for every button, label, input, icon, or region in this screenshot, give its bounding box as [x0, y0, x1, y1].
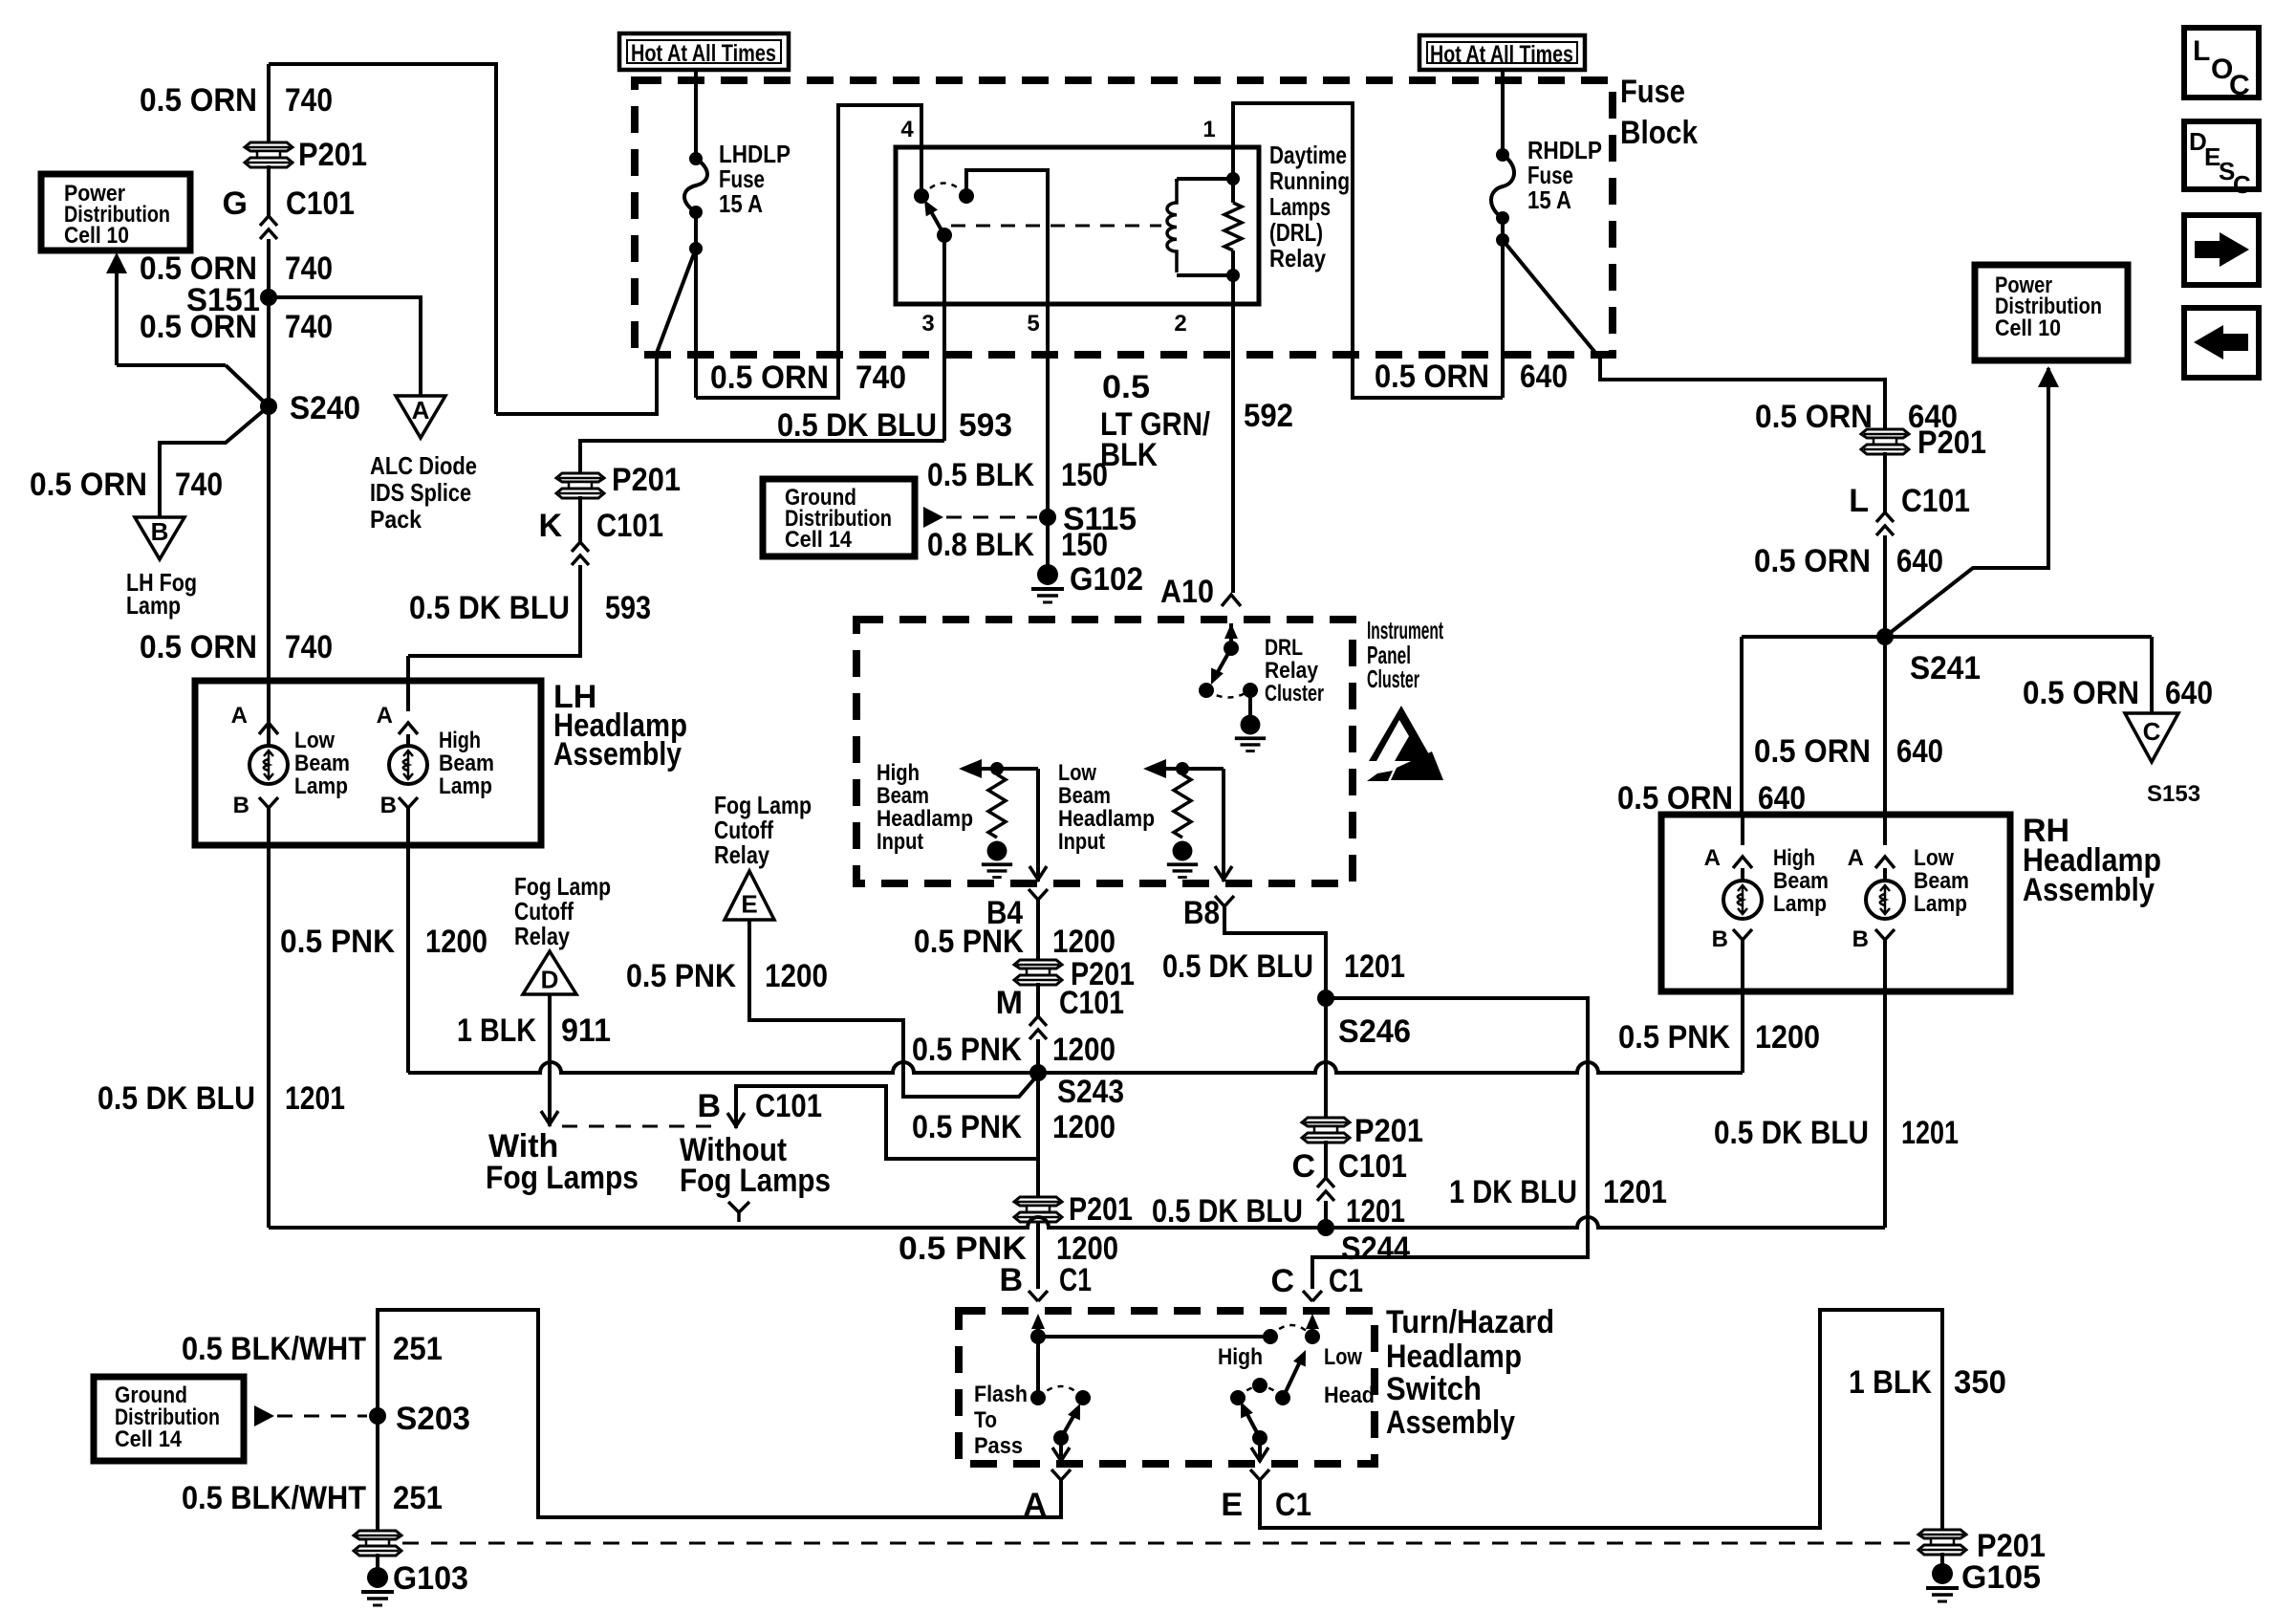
- LH high beam lamp: [389, 746, 427, 784]
- svg-text:0.5 ORN: 0.5 ORN: [140, 309, 257, 345]
- connector C101 cavity K chevron: [572, 542, 589, 565]
- svg-text:150: 150: [1061, 527, 1108, 563]
- svg-text:Headlamp: Headlamp: [1058, 806, 1155, 832]
- svg-text:S244: S244: [1341, 1230, 1410, 1267]
- wire C101 C to S244: [1324, 1201, 1328, 1228]
- wire P201 to C101 M: [1036, 983, 1040, 1016]
- label P201 (L): [1917, 425, 1986, 461]
- ground distribution cell14 box (bottom): [94, 1377, 244, 1461]
- label S243: [1057, 1074, 1124, 1110]
- svg-text:C101: C101: [596, 508, 663, 544]
- Fuse Block label: [1620, 74, 1698, 151]
- svg-text:0.5 DK BLU: 0.5 DK BLU: [1152, 1193, 1303, 1230]
- switch flash contact right: [1075, 1390, 1091, 1405]
- label With Fog Lamps: [486, 1128, 639, 1196]
- IPC DRL switch pivot: [1224, 641, 1239, 656]
- DRL relay box: [896, 147, 1259, 304]
- label B C1: [999, 1262, 1092, 1298]
- wire trunk P201 to C101: [267, 165, 271, 216]
- LH fog lamp triangle B: [135, 517, 184, 559]
- label 0.5 DK BLU 593: [777, 407, 1012, 444]
- svg-text:Beam: Beam: [877, 783, 929, 809]
- wire A to S203 riser: [378, 1310, 1061, 1531]
- wire P201 L to C101 L: [1883, 452, 1887, 512]
- svg-text:IDS Splice: IDS Splice: [370, 478, 471, 507]
- svg-text:Beam: Beam: [439, 751, 494, 776]
- svg-text:BLK: BLK: [1100, 437, 1158, 473]
- IPC DRL ground: [1235, 715, 1266, 751]
- svg-text:0.5 ORN: 0.5 ORN: [1755, 399, 1873, 435]
- switch Low contact: [1305, 1329, 1320, 1344]
- wire trunk above P201: [267, 64, 271, 143]
- wire horizontal y433: [496, 412, 657, 416]
- wire P201 to G105: [1940, 1553, 1944, 1565]
- LH high beam lamp connector B: [380, 793, 418, 845]
- svg-text:150: 150: [1061, 457, 1108, 493]
- label 1 BLK 350: [1849, 1364, 2006, 1401]
- wire S241 to power distribution arrow: [1885, 366, 2059, 637]
- splice S151: [260, 289, 277, 306]
- label 1 BLK 911: [457, 1012, 611, 1049]
- label E C1: [1221, 1487, 1311, 1523]
- svg-text:To: To: [974, 1407, 997, 1433]
- svg-text:Lamp: Lamp: [439, 773, 492, 799]
- svg-text:Running: Running: [1269, 166, 1350, 195]
- label 0.5 DK BLU 593 (lower): [409, 590, 651, 626]
- label LHDLP Fuse 15 A: [719, 140, 791, 218]
- label 0.5 PNK 1200 (LH high): [280, 924, 487, 960]
- label P201 (K): [612, 462, 681, 498]
- label pin 1: [1202, 117, 1215, 142]
- label Flash To Pass: [974, 1382, 1028, 1459]
- dashed with/without link: [562, 1125, 720, 1128]
- svg-text:Cluster: Cluster: [1265, 681, 1324, 707]
- label 0.5 ORN 740 (fog): [30, 467, 223, 503]
- svg-text:1200: 1200: [1052, 924, 1116, 960]
- relay coil: [1167, 179, 1233, 275]
- wire S246 branch right and down to C C1: [1312, 998, 1588, 1289]
- connector Y (without fog lamps): [728, 1202, 749, 1222]
- splice S246: [1317, 990, 1334, 1007]
- svg-text:4: 4: [900, 117, 914, 142]
- wire right vertical of top loop: [494, 62, 498, 414]
- wire P201 C to C101: [1324, 1141, 1328, 1178]
- svg-text:Switch: Switch: [1386, 1371, 1482, 1407]
- svg-text:0.5 ORN: 0.5 ORN: [1617, 780, 1733, 816]
- svg-text:593: 593: [959, 407, 1012, 444]
- label B4: [986, 895, 1023, 931]
- svg-text:B8: B8: [1183, 895, 1220, 931]
- svg-text:1200: 1200: [765, 958, 828, 994]
- wire LH low beam lamp stem: [267, 683, 271, 746]
- svg-text:(DRL): (DRL): [1269, 218, 1323, 247]
- svg-text:High: High: [1773, 845, 1815, 871]
- svg-text:Fog Lamps: Fog Lamps: [486, 1160, 639, 1196]
- svg-text:Relay: Relay: [1265, 658, 1319, 684]
- switch flash dashed arc: [1038, 1386, 1083, 1398]
- wire C101 L to S241: [1883, 535, 1887, 637]
- svg-text:Daytime: Daytime: [1269, 141, 1347, 169]
- wire trunk S151 to S240: [267, 297, 271, 406]
- Hot At All Times box (left): [619, 33, 789, 70]
- svg-text:B: B: [233, 793, 249, 818]
- splice S203: [369, 1407, 386, 1425]
- svg-text:640: 640: [2165, 675, 2213, 711]
- svg-text:Lamp: Lamp: [1773, 891, 1827, 917]
- svg-text:G102: G102: [1070, 561, 1143, 598]
- wire RH high beam B down: [1741, 991, 1744, 1073]
- svg-text:B: B: [1712, 926, 1728, 952]
- label S153: [2147, 781, 2200, 807]
- svg-text:C: C: [1270, 1263, 1294, 1299]
- switch dimmer arm: [1275, 1350, 1306, 1405]
- svg-text:P201: P201: [1069, 1191, 1133, 1228]
- LH low beam lamp: [249, 746, 288, 784]
- label S151: [186, 282, 260, 318]
- label RH Headlamp Assembly: [2023, 813, 2161, 908]
- wire B4 to P201: [1036, 900, 1040, 961]
- relay resistor: [1224, 179, 1242, 275]
- label 0.5 PNK 1200 (RH high): [1618, 1019, 1820, 1056]
- label A10: [1160, 574, 1214, 610]
- svg-text:Lamps: Lamps: [1269, 192, 1331, 221]
- svg-text:A: A: [231, 703, 248, 729]
- label S241: [1910, 650, 1981, 686]
- connector A10 chevron: [1222, 595, 1241, 606]
- LOC icon: [2184, 28, 2259, 101]
- wire IPC low beam output: [1215, 769, 1232, 882]
- label Low Beam Lamp (RH): [1914, 845, 1969, 917]
- wire trunk S240 to LH headlamp: [267, 406, 271, 683]
- switch flash arm: [1053, 1404, 1080, 1446]
- label LH Headlamp Assembly: [553, 679, 687, 773]
- svg-text:M: M: [996, 985, 1023, 1021]
- LH headlamp assembly box: [195, 681, 541, 845]
- wire LH high beam feed: [406, 656, 410, 681]
- svg-text:251: 251: [393, 1331, 443, 1367]
- svg-text:Low: Low: [1058, 760, 1096, 786]
- svg-text:Beam: Beam: [1773, 868, 1829, 894]
- svg-text:0.5 PNK: 0.5 PNK: [912, 1109, 1022, 1145]
- label pin 4: [900, 117, 914, 142]
- svg-text:1200: 1200: [425, 924, 487, 960]
- svg-text:1200: 1200: [1052, 1032, 1116, 1068]
- label 0.5 DK BLU 1201 (B8): [1162, 948, 1405, 985]
- svg-text:0.5 ORN: 0.5 ORN: [1754, 543, 1871, 579]
- svg-text:1200: 1200: [1755, 1019, 1820, 1056]
- svg-text:G105: G105: [1961, 1559, 2041, 1596]
- svg-text:1 BLK: 1 BLK: [457, 1012, 536, 1049]
- svg-text:0.5 ORN: 0.5 ORN: [140, 82, 257, 119]
- svg-text:0.5 BLK/WHT: 0.5 BLK/WHT: [182, 1480, 366, 1516]
- svg-text:C: C: [2143, 717, 2161, 746]
- IPC high beam input arrow: [959, 759, 1038, 778]
- wire S243 down to P201: [1036, 1073, 1040, 1201]
- svg-text:Low: Low: [1914, 845, 1954, 871]
- label 0.5 PNK 1200 (below S243): [912, 1109, 1116, 1145]
- IPC DRL switch arm: [1211, 648, 1231, 685]
- wire left branch down to RH high beam: [1740, 637, 1744, 815]
- svg-text:0.5 BLK/WHT: 0.5 BLK/WHT: [182, 1331, 366, 1367]
- svg-text:1201: 1201: [1346, 1193, 1405, 1230]
- wire P201 K to C101 K: [578, 496, 582, 542]
- svg-text:0.5 ORN: 0.5 ORN: [710, 359, 829, 396]
- svg-text:C101: C101: [1059, 985, 1124, 1021]
- wire pin5 down to S115: [1046, 304, 1050, 566]
- wire IPC high beam output: [1029, 769, 1047, 882]
- svg-text:15 A: 15 A: [1527, 185, 1571, 214]
- label 0.5 DK BLU 1201 (LH low): [97, 1080, 345, 1117]
- svg-text:Assembly: Assembly: [2023, 872, 2155, 908]
- wire bracket under fuse block (left): [696, 105, 921, 398]
- wire pin3 to P201 K: [580, 441, 944, 474]
- svg-text:G103: G103: [393, 1560, 468, 1597]
- svg-text:3: 3: [921, 311, 934, 337]
- svg-text:1 DK BLU: 1 DK BLU: [1449, 1174, 1577, 1210]
- label G102: [1070, 561, 1143, 598]
- RH headlamp assembly box: [1661, 815, 2010, 991]
- svg-text:C1: C1: [1059, 1262, 1092, 1298]
- wire to S153 triangle: [2150, 637, 2154, 713]
- svg-text:A: A: [1704, 845, 1721, 871]
- svg-text:0.5 ORN: 0.5 ORN: [140, 629, 257, 665]
- connector E chevron: [1250, 1469, 1269, 1480]
- IPC DRL contact right: [1243, 683, 1258, 698]
- label 0.8 BLK 150: [927, 527, 1108, 563]
- fog lamp cutoff relay E triangle: [725, 871, 774, 920]
- svg-text:DRL: DRL: [1265, 635, 1303, 661]
- IPC high beam ground: [982, 841, 1012, 878]
- connector P201 (B): [1014, 1197, 1062, 1222]
- label S240: [290, 390, 360, 426]
- wire LHDLP fuse feed: [694, 68, 698, 159]
- svg-text:350: 350: [1954, 1364, 2006, 1401]
- connector B4 chevron: [1029, 889, 1048, 900]
- svg-text:Hot At All Times: Hot At All Times: [631, 40, 776, 67]
- svg-text:High: High: [1218, 1344, 1263, 1370]
- svg-text:P201: P201: [1354, 1113, 1423, 1149]
- wire C101 M to S243: [1036, 1039, 1040, 1073]
- RH low beam lamp connector B: [1852, 926, 1895, 991]
- RH high beam lamp connector A: [1704, 815, 1752, 871]
- svg-text:Cell 10: Cell 10: [64, 223, 129, 249]
- svg-text:0.5 PNK: 0.5 PNK: [914, 924, 1024, 960]
- label Low: [1324, 1344, 1362, 1370]
- svg-text:C: C: [2229, 70, 2250, 101]
- svg-text:Beam: Beam: [294, 751, 350, 776]
- svg-text:Block: Block: [1620, 115, 1698, 151]
- label 0.5 DK BLU 1201 (above P201 C): [1152, 1193, 1405, 1230]
- svg-text:1200: 1200: [1052, 1109, 1116, 1145]
- label Turn/Hazard Headlamp Switch Assembly: [1386, 1304, 1554, 1441]
- wire relay pin3 down: [942, 235, 946, 441]
- svg-text:0.5 DK BLU: 0.5 DK BLU: [777, 407, 937, 444]
- svg-text:740: 740: [856, 359, 906, 396]
- label 0.5 ORN 740 (below C101): [140, 250, 333, 287]
- svg-text:0.5: 0.5: [1102, 369, 1150, 405]
- svg-text:740: 740: [285, 629, 333, 665]
- label High Beam Lamp (RH): [1773, 845, 1829, 917]
- wire RH high beam lamp stem: [1741, 868, 1744, 881]
- svg-text:0.5 DK BLU: 0.5 DK BLU: [409, 590, 570, 626]
- wire trunk C101 to S151: [267, 239, 271, 297]
- IPC high beam node: [990, 762, 1004, 775]
- svg-text:G: G: [223, 185, 248, 222]
- fog lamp cutoff relay D triangle: [523, 951, 576, 994]
- label Low Beam Lamp (LH): [294, 728, 350, 799]
- label 0.5 ORN 640 (RH low feed): [1754, 733, 1943, 770]
- svg-text:P201: P201: [1917, 425, 1986, 461]
- connector B C1 chevron: [1029, 1291, 1048, 1301]
- svg-text:Headlamp: Headlamp: [1386, 1339, 1522, 1375]
- svg-text:A: A: [377, 703, 393, 729]
- wire LH high beam B down: [406, 845, 410, 1073]
- svg-text:Relay: Relay: [714, 840, 769, 869]
- switch B bus node: [1030, 1329, 1046, 1344]
- connector P201 (G105): [1918, 1530, 1966, 1555]
- svg-text:Beam: Beam: [1058, 783, 1111, 809]
- svg-text:D: D: [541, 965, 559, 993]
- svg-text:0.5 PNK: 0.5 PNK: [912, 1032, 1022, 1068]
- wire D relay down: [541, 994, 558, 1126]
- svg-text:Assembly: Assembly: [1386, 1404, 1515, 1441]
- connector P201 (C): [1302, 1118, 1350, 1143]
- svg-text:Input: Input: [877, 829, 923, 855]
- svg-text:Headlamp: Headlamp: [877, 806, 973, 832]
- IPC DRL ground stem: [1248, 690, 1252, 717]
- svg-text:593: 593: [605, 590, 651, 626]
- label RHDLP Fuse 15 A: [1527, 136, 1602, 214]
- connector P201 (B4/M): [1014, 960, 1062, 985]
- IPC low beam ground: [1167, 841, 1198, 878]
- splice S240: [260, 398, 277, 415]
- splice pack triangle A: [396, 396, 445, 438]
- IPC DRL contact left: [1199, 683, 1214, 698]
- connector C101 cavity C chevron: [1317, 1178, 1334, 1201]
- label 0.5 ORN 640 (to P201 L): [1755, 399, 1958, 435]
- label B C101 (without): [697, 1088, 822, 1124]
- next page arrow icon: [2184, 215, 2259, 285]
- IPC low beam resistor: [1174, 774, 1191, 838]
- label S244: [1341, 1230, 1410, 1267]
- label 0.5 ORN 640 (S153): [2023, 675, 2213, 711]
- wire PNK 1200 bus: [408, 1062, 1743, 1073]
- fuse LHDLP element: [684, 152, 707, 219]
- svg-text:0.5 ORN: 0.5 ORN: [2023, 675, 2139, 711]
- wire RH low beam B down: [1883, 991, 1887, 1228]
- wire B8 to S246: [1224, 906, 1326, 998]
- wire RHDLP fuse feed: [1501, 68, 1505, 155]
- switch High contact: [1263, 1329, 1278, 1344]
- RH high beam lamp: [1723, 881, 1762, 919]
- label M C101: [996, 985, 1124, 1021]
- svg-text:Fuse: Fuse: [1620, 74, 1685, 110]
- wire RH low beam lamp stem: [1883, 868, 1887, 881]
- without fog lamps bracket: [727, 1086, 1038, 1159]
- svg-text:0.5 DK BLU: 0.5 DK BLU: [1714, 1115, 1869, 1151]
- label L C101: [1849, 483, 1970, 519]
- fuse RHDLP element: [1491, 148, 1514, 225]
- svg-text:B: B: [151, 517, 169, 546]
- label C C101: [1291, 1148, 1407, 1185]
- wire ORN 740 top horizontal: [269, 62, 496, 66]
- wire below RHDLP fuse: [1496, 218, 1509, 398]
- svg-text:S153: S153: [2147, 781, 2200, 807]
- svg-text:Input: Input: [1058, 829, 1105, 855]
- svg-text:640: 640: [1758, 780, 1806, 816]
- label 0.5 PNK 1200 (E relay): [626, 958, 828, 994]
- relay mechanical link dashed: [951, 225, 1161, 228]
- label 0.5 DK BLU 1201 (RH low): [1714, 1115, 1959, 1151]
- label B8: [1183, 895, 1220, 931]
- connector C101 cavity M chevron: [1029, 1016, 1047, 1039]
- wire S246 to P201 C: [1324, 998, 1328, 1119]
- label Head: [1324, 1382, 1375, 1408]
- wire S151 branch to ALC splice pack: [269, 297, 421, 396]
- label C C1: [1270, 1263, 1363, 1299]
- relay contact arc dashed: [921, 184, 966, 197]
- svg-text:C: C: [2233, 170, 2251, 199]
- svg-text:Assembly: Assembly: [553, 736, 682, 773]
- svg-text:Lamp: Lamp: [126, 591, 181, 620]
- connector P201 (K): [556, 473, 604, 498]
- svg-text:1 BLK: 1 BLK: [1849, 1364, 1932, 1401]
- label S115: [1063, 501, 1137, 537]
- label S203: [396, 1401, 470, 1437]
- svg-text:A: A: [1848, 845, 1864, 871]
- svg-text:592: 592: [1244, 398, 1293, 434]
- label 0.5 BLK/WHT 251 (lower): [182, 1480, 443, 1516]
- svg-text:640: 640: [1896, 733, 1943, 770]
- svg-text:S246: S246: [1338, 1013, 1411, 1050]
- svg-text:S243: S243: [1057, 1074, 1124, 1110]
- splice S115: [1039, 509, 1056, 526]
- label Daytime Running Lamps (DRL) Relay: [1269, 141, 1350, 272]
- switch C entry arrow: [1306, 1314, 1319, 1337]
- wire LH high beam lamp stem: [406, 734, 410, 746]
- label 0.5 PNK 1200 (above S243): [912, 1032, 1116, 1068]
- switch dimmer contacts: [1230, 1378, 1267, 1405]
- switch high/low dashed arc: [1270, 1325, 1312, 1337]
- svg-text:C101: C101: [1338, 1148, 1407, 1185]
- svg-text:C: C: [1291, 1148, 1315, 1185]
- label Fog Lamp Cutoff Relay (D): [514, 872, 611, 950]
- switch dimmer lower arm: [1241, 1402, 1267, 1446]
- svg-text:251: 251: [393, 1480, 443, 1516]
- label 0.5 ORN 640 (above S241): [1754, 543, 1943, 579]
- wire E to G105: [1260, 1310, 1942, 1530]
- label DRL Relay Cluster: [1265, 635, 1324, 707]
- label 0.5 ORN 740 (top): [140, 82, 333, 119]
- svg-text:High: High: [439, 728, 481, 753]
- svg-text:C101: C101: [1901, 483, 1970, 519]
- label P201 (C): [1354, 1113, 1423, 1149]
- svg-text:1201: 1201: [1901, 1115, 1959, 1151]
- svg-text:0.5 ORN: 0.5 ORN: [1375, 359, 1489, 395]
- wire below fuse with node: [689, 212, 703, 398]
- svg-text:Flash: Flash: [974, 1382, 1028, 1407]
- connector P201 (L): [1861, 429, 1909, 454]
- turn/hazard headlamp switch dashed outline: [959, 1311, 1375, 1464]
- label Low Beam Headlamp Input: [1058, 760, 1155, 855]
- svg-text:Cell 10: Cell 10: [1995, 316, 2061, 341]
- svg-text:A10: A10: [1160, 574, 1214, 610]
- label 0.5 BLK/WHT 251 (upper): [182, 1331, 443, 1367]
- svg-text:Head: Head: [1324, 1382, 1375, 1408]
- svg-text:0.5 ORN: 0.5 ORN: [1754, 733, 1871, 770]
- wire diagonal to LHDLP fuse: [657, 249, 696, 353]
- svg-text:1201: 1201: [1603, 1174, 1667, 1210]
